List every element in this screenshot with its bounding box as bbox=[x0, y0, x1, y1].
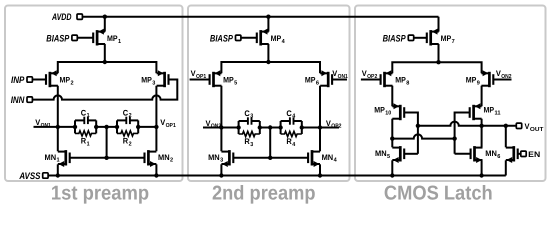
label VOP2 in bbox=[362, 69, 378, 80]
node RC1 right bbox=[94, 125, 98, 129]
node latch right gate-node bbox=[416, 124, 420, 128]
label MN2 bbox=[158, 153, 173, 164]
wire MN6 source bbox=[481, 160, 483, 175]
svg-text:11: 11 bbox=[495, 110, 502, 116]
node CM 1 bbox=[104, 125, 108, 129]
label MN4 bbox=[322, 153, 338, 164]
transistor MN2 bbox=[145, 150, 157, 167]
wire INP to MP2 gate bbox=[32, 79, 46, 81]
label MN1 bbox=[45, 153, 61, 164]
transistor MN-EN bbox=[506, 146, 518, 163]
panel frame CMOS latch bbox=[355, 6, 546, 182]
transistor MP5 bbox=[210, 70, 222, 87]
node VOP2 bbox=[318, 125, 322, 129]
wire EN gate bbox=[518, 153, 521, 155]
transistor MP11 bbox=[470, 103, 482, 120]
node MN gates 2 bbox=[268, 156, 272, 160]
label MP7 bbox=[441, 34, 455, 45]
wire RC3 to RC4 bbox=[260, 127, 281, 129]
node tail 3 bbox=[436, 60, 440, 64]
capacitor C2 bbox=[117, 108, 138, 124]
transistor MP8 bbox=[381, 70, 393, 87]
svg-text:ON1: ON1 bbox=[41, 122, 52, 129]
svg-text:R: R bbox=[123, 137, 129, 146]
transistor MP3 bbox=[157, 70, 169, 87]
svg-text:BIASP: BIASP bbox=[210, 33, 234, 44]
wire MP1 drain bbox=[104, 44, 106, 62]
capacitor C1 bbox=[75, 108, 96, 124]
wire MN3 source bbox=[220, 164, 222, 175]
wire AVSS rail bbox=[48, 175, 506, 177]
wire MN4 source bbox=[319, 164, 321, 175]
wire tail rail 2 bbox=[221, 62, 320, 73]
wire INN net to MP3 gate bbox=[32, 80, 177, 100]
node MN1 source bbox=[56, 173, 60, 177]
caption 2nd preamp bbox=[212, 182, 316, 204]
svg-text:MP: MP bbox=[466, 76, 477, 85]
capacitor C4 bbox=[281, 109, 302, 125]
wire VON2 stub bbox=[203, 127, 239, 129]
svg-text:7: 7 bbox=[452, 39, 455, 45]
transistor MN1 bbox=[58, 150, 70, 167]
wire RC4 frame bbox=[281, 121, 302, 134]
label MP1 bbox=[107, 34, 122, 45]
wire MP10 drain bbox=[391, 119, 393, 139]
label VON1 bbox=[35, 118, 51, 129]
resistor R3 bbox=[239, 131, 260, 148]
transistor MP6 bbox=[320, 70, 332, 87]
svg-text:2: 2 bbox=[71, 80, 74, 87]
label MN6 bbox=[485, 149, 501, 160]
svg-text:C: C bbox=[81, 108, 87, 117]
label VON2 bbox=[206, 119, 222, 130]
wire MP2 drain to MN1 drain bbox=[57, 86, 59, 152]
svg-text:MP: MP bbox=[60, 76, 71, 85]
port BIASP bbox=[46, 33, 77, 44]
wire BIASP to MP7 gate bbox=[414, 37, 427, 39]
svg-text:MN: MN bbox=[322, 153, 334, 162]
svg-text:MN: MN bbox=[208, 153, 220, 162]
wire MP7 drain bbox=[438, 44, 440, 62]
svg-text:INN: INN bbox=[11, 95, 26, 106]
wire MP1 source bbox=[104, 17, 106, 32]
svg-text:MN: MN bbox=[45, 153, 57, 162]
svg-text:R: R bbox=[81, 137, 87, 146]
node MN3 source bbox=[219, 173, 223, 177]
port AVSS bbox=[19, 171, 49, 182]
port EN bbox=[521, 150, 541, 159]
svg-text:2: 2 bbox=[129, 112, 132, 119]
wire MP9 drain to MP11 source bbox=[481, 86, 483, 107]
wire MN6 gate bbox=[455, 153, 471, 155]
svg-text:R: R bbox=[286, 137, 292, 146]
svg-text:C: C bbox=[244, 109, 250, 118]
wire VOP2 to MP8 gate bbox=[361, 79, 381, 81]
svg-text:MP: MP bbox=[374, 106, 385, 115]
wire node to MN6 drain bbox=[481, 126, 483, 148]
caption CMOS Latch bbox=[384, 182, 493, 204]
wire MP11 gate cross bbox=[455, 113, 470, 154]
wire VOP1 to MP5 gate bbox=[190, 79, 210, 81]
port AVDD bbox=[51, 12, 82, 23]
svg-text:ON2: ON2 bbox=[211, 123, 221, 130]
node RC4 left bbox=[278, 125, 282, 129]
label VOP1 bbox=[160, 118, 176, 129]
svg-text:2: 2 bbox=[170, 157, 173, 164]
wire tail rail 3 bbox=[392, 62, 481, 73]
svg-text:MP: MP bbox=[395, 76, 406, 85]
port INP bbox=[11, 75, 32, 86]
node CM 2 bbox=[268, 125, 272, 129]
wire MN5 gate bbox=[404, 153, 418, 155]
wire BIASP to MP4 gate bbox=[241, 37, 257, 39]
svg-text:C: C bbox=[286, 109, 292, 118]
svg-text:BIASP: BIASP bbox=[46, 33, 70, 44]
wire RC4 to VOP2 bbox=[302, 127, 320, 129]
transistor MP9 bbox=[481, 70, 493, 87]
wire MP3 drain to MN2 drain bbox=[155, 86, 157, 152]
node RC4 right bbox=[300, 125, 304, 129]
node VOP1 bbox=[154, 125, 158, 129]
wire latch line B bbox=[392, 134, 454, 138]
svg-text:R: R bbox=[244, 137, 250, 146]
wire MP7 source bbox=[438, 17, 440, 32]
svg-text:C: C bbox=[123, 108, 129, 117]
node latch left cross join bbox=[452, 136, 456, 140]
svg-text:INP: INP bbox=[11, 75, 25, 86]
wire MP4 source bbox=[267, 17, 269, 32]
wire RC3 frame bbox=[239, 121, 260, 134]
transistor MP2 bbox=[46, 70, 58, 87]
label MP9 bbox=[466, 76, 481, 87]
label VOP2 out bbox=[326, 119, 342, 130]
wire latch line A bbox=[418, 122, 516, 126]
svg-text:MP: MP bbox=[484, 106, 495, 115]
svg-text:MP: MP bbox=[305, 76, 316, 85]
node tail 1 bbox=[103, 60, 107, 64]
svg-text:10: 10 bbox=[385, 109, 391, 116]
wire CM drop 2 bbox=[269, 128, 271, 158]
node AVDD-MP1 bbox=[103, 15, 107, 19]
svg-text:OP1: OP1 bbox=[166, 122, 177, 129]
transistor MP4 bbox=[257, 29, 269, 46]
wire VON1 stub bbox=[34, 126, 76, 128]
label MP8 bbox=[395, 76, 410, 87]
svg-text:MP: MP bbox=[441, 34, 452, 43]
wire RC2 to VOP1 bbox=[138, 126, 156, 128]
transistor MN4 bbox=[308, 150, 320, 167]
svg-text:OUT: OUT bbox=[530, 126, 544, 133]
port INN bbox=[11, 95, 33, 106]
resistor R4 bbox=[281, 131, 302, 148]
wire EN drain bbox=[505, 126, 507, 148]
node MN6 source bbox=[479, 173, 483, 177]
node RC3 right bbox=[258, 125, 262, 129]
wire MN1 source bbox=[57, 164, 59, 175]
capacitor C3 bbox=[239, 109, 260, 125]
svg-text:MP: MP bbox=[271, 34, 282, 43]
node RC2 left bbox=[115, 125, 119, 129]
label MP2 bbox=[60, 76, 74, 87]
wire BIASP to MP1 gate bbox=[77, 37, 93, 39]
transistor MP7 bbox=[427, 29, 439, 46]
node VON2 bbox=[219, 125, 223, 129]
wire tail rail 1 bbox=[58, 62, 157, 73]
node MN2 source bbox=[154, 173, 158, 177]
wire RC2 frame bbox=[117, 120, 138, 133]
svg-text:MN: MN bbox=[375, 149, 387, 158]
wire RC1 to RC2 bbox=[96, 126, 117, 128]
node lineA EN drain bbox=[504, 124, 508, 128]
wire MN5 source bbox=[391, 160, 393, 175]
label MP10 bbox=[374, 106, 391, 117]
wire MP11 drain bbox=[481, 119, 483, 126]
svg-text:MP: MP bbox=[223, 76, 234, 85]
node MN5 source bbox=[390, 173, 394, 177]
svg-text:MP: MP bbox=[107, 34, 118, 43]
wire cross vertical left bbox=[417, 126, 419, 154]
wire MP6 gate to VON1 bbox=[332, 79, 347, 81]
port BIASP 2 bbox=[210, 33, 241, 44]
svg-text:2nd preamp: 2nd preamp bbox=[212, 182, 316, 204]
resistor R1 bbox=[75, 131, 96, 148]
svg-text:MN: MN bbox=[158, 153, 170, 162]
transistor MN6 bbox=[471, 146, 483, 163]
label VOP1 in bbox=[191, 69, 207, 80]
wire RC1 frame bbox=[75, 120, 96, 133]
svg-text:MN: MN bbox=[485, 149, 497, 158]
wire MP10 gate cross bbox=[404, 113, 418, 126]
node RC3 left bbox=[236, 125, 240, 129]
panel frame 2nd preamp bbox=[188, 6, 350, 182]
transistor MN3 bbox=[221, 150, 233, 167]
node latch left out bbox=[390, 136, 394, 140]
caption 1st preamp bbox=[51, 182, 149, 204]
svg-text:BIASP: BIASP bbox=[383, 33, 407, 44]
wire node to MN5 drain bbox=[391, 139, 393, 148]
wire EN source bbox=[505, 160, 507, 175]
label MP3 bbox=[141, 76, 156, 87]
svg-text:MP: MP bbox=[141, 76, 152, 85]
wire MP4 drain bbox=[267, 44, 269, 62]
label MN3 bbox=[208, 153, 224, 164]
panel frame 1st preamp bbox=[5, 6, 183, 182]
svg-text:AVDD: AVDD bbox=[51, 12, 71, 23]
wire CM drop 1 bbox=[106, 127, 108, 158]
node VON1 bbox=[56, 125, 60, 129]
transistor MP10 bbox=[392, 103, 404, 120]
svg-text:OP2: OP2 bbox=[331, 123, 341, 130]
wire MP6 drain to MN4 drain bbox=[319, 86, 321, 152]
label MP5 bbox=[223, 76, 238, 87]
wire MP8 drain to MP10 source bbox=[391, 86, 393, 107]
node MN gates 1 bbox=[104, 156, 108, 160]
resistor R2 bbox=[117, 131, 138, 148]
node tail 2 bbox=[266, 60, 270, 64]
label MN5 bbox=[375, 149, 391, 160]
label MP11 bbox=[484, 106, 502, 117]
svg-text:1st preamp: 1st preamp bbox=[51, 182, 149, 204]
wire MN gates 1 bbox=[70, 157, 145, 159]
label MP4 bbox=[271, 34, 286, 45]
label MP6 bbox=[305, 76, 320, 87]
node RC1 left bbox=[73, 125, 77, 129]
transistor MP1 bbox=[93, 29, 105, 46]
svg-text:EN: EN bbox=[528, 150, 540, 159]
node MN4 source bbox=[318, 173, 322, 177]
wire MP5 drain to MN3 drain bbox=[220, 86, 222, 152]
port VOUT bbox=[516, 122, 544, 133]
node AVDD-MP4 bbox=[266, 15, 270, 19]
node RC2 right bbox=[136, 125, 140, 129]
wire MN gates 2 bbox=[233, 157, 308, 159]
wire MP9 gate to VON2 bbox=[493, 79, 511, 81]
wire AVDD rail bbox=[82, 16, 438, 18]
node latch right out bbox=[479, 124, 483, 128]
wire MN2 source bbox=[155, 164, 157, 175]
svg-text:AVSS: AVSS bbox=[19, 171, 41, 182]
port BIASP 3 bbox=[383, 33, 414, 44]
svg-text:CMOS Latch: CMOS Latch bbox=[384, 182, 493, 204]
label VON1 in bbox=[332, 69, 348, 80]
wire VOP2 stub bbox=[320, 127, 339, 129]
svg-text:2: 2 bbox=[129, 140, 132, 147]
label VON2 in bbox=[496, 69, 512, 80]
transistor MN5 bbox=[392, 146, 404, 163]
